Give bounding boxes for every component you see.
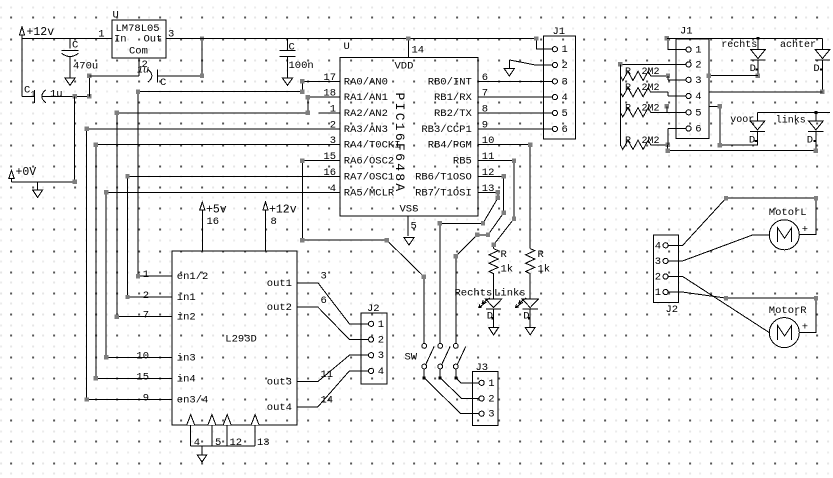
wire out1 to J2 pin1 xyxy=(297,283,369,324)
svg-text:470u: 470u xyxy=(73,60,98,72)
svg-text:13: 13 xyxy=(257,437,270,449)
svg-text:5: 5 xyxy=(695,107,701,119)
wire J1 pin2 to ground xyxy=(509,60,552,65)
label SW xyxy=(405,352,418,364)
supply +12v arrow (pin 8) xyxy=(263,202,297,228)
wire up to Out rail xyxy=(201,39,203,76)
ground L293D xyxy=(197,446,207,462)
svg-text:U: U xyxy=(113,10,119,22)
svg-text:C: C xyxy=(24,85,30,97)
connector J1 (right) xyxy=(676,26,709,139)
svg-text:D: D xyxy=(523,311,529,323)
svg-text:achter: achter xyxy=(780,39,816,51)
svg-text:Out: Out xyxy=(144,34,163,46)
ground below C 470u xyxy=(65,78,75,86)
wire RB6 to switch 3 xyxy=(454,174,506,343)
LED D Links xyxy=(515,298,538,323)
svg-text:3: 3 xyxy=(488,409,494,421)
svg-text:15: 15 xyxy=(323,151,336,163)
svg-text:out2: out2 xyxy=(267,302,292,314)
junction Out rail xyxy=(200,36,204,40)
wire +12v to pin 8 xyxy=(265,214,267,251)
svg-text:RB0/INT: RB0/INT xyxy=(428,76,472,88)
wire R to LED Links xyxy=(529,274,531,299)
svg-text:RB2/TX: RB2/TX xyxy=(434,108,473,120)
svg-text:16: 16 xyxy=(323,167,336,179)
svg-text:3: 3 xyxy=(562,76,568,88)
svg-text:6: 6 xyxy=(482,72,488,84)
svg-text:VDD: VDD xyxy=(395,60,414,72)
svg-text:+0V: +0V xyxy=(16,166,37,179)
LED D links xyxy=(807,112,824,146)
svg-text:Rechts: Rechts xyxy=(455,288,493,300)
switch SW1 xyxy=(422,344,434,380)
svg-text:L293D: L293D xyxy=(225,334,257,346)
svg-text:J3: J3 xyxy=(476,362,489,374)
wire links cathode to J1R pin6 xyxy=(666,132,819,153)
svg-text:14: 14 xyxy=(412,45,425,57)
svg-text:17: 17 xyxy=(323,72,336,84)
capacitor C 470u xyxy=(62,39,99,78)
wire LED Rechts to ground xyxy=(493,309,495,327)
svg-text:RA0/AN0: RA0/AN0 xyxy=(344,76,388,88)
svg-text:D: D xyxy=(487,311,493,323)
connector J1 (left) xyxy=(544,26,576,139)
wire voor jog xyxy=(665,104,669,112)
svg-text:out1: out1 xyxy=(267,278,292,290)
resistor R 1k (Rechts) xyxy=(489,249,513,276)
svg-text:in3: in3 xyxy=(177,352,196,364)
resistor R 2M2 #3 xyxy=(620,103,659,117)
pin RA2 stub xyxy=(318,112,340,114)
svg-text:1: 1 xyxy=(655,287,661,299)
wire +12v down to C1 xyxy=(21,39,23,97)
ground LED Rechts xyxy=(489,328,499,335)
svg-text:J2: J2 xyxy=(666,304,679,316)
svg-text:+: + xyxy=(802,322,808,334)
svg-text:RA7/OSC1: RA7/OSC1 xyxy=(344,171,394,183)
junction VDD rail xyxy=(406,36,410,40)
svg-text:J1: J1 xyxy=(553,26,566,38)
svg-text:MotorL: MotorL xyxy=(769,207,807,219)
svg-text:RB7/T1OSI: RB7/T1OSI xyxy=(415,187,472,199)
svg-text:2: 2 xyxy=(655,272,661,284)
capacitor C 1u (regulator output) xyxy=(137,66,166,90)
svg-text:3: 3 xyxy=(330,135,336,147)
wire RB2 to J1 pin5 xyxy=(478,112,552,114)
ground LED Links xyxy=(525,328,535,335)
svg-text:J1: J1 xyxy=(680,26,693,38)
svg-text:RB6/T1OSO: RB6/T1OSO xyxy=(415,171,472,183)
svg-text:RA1/AN1: RA1/AN1 xyxy=(344,92,388,104)
wire R2 to J1R pin4 xyxy=(651,92,686,96)
svg-text:in4: in4 xyxy=(177,373,196,385)
svg-text:3: 3 xyxy=(695,75,701,87)
svg-text:8: 8 xyxy=(482,104,488,116)
svg-text:C: C xyxy=(289,42,295,54)
wire J1R pin1 to LED rail xyxy=(665,36,686,50)
svg-text:6: 6 xyxy=(695,124,701,136)
wire RA3 to en3/4 xyxy=(84,127,339,402)
supply +5v arrow (pin 16) xyxy=(200,202,227,228)
svg-text:1: 1 xyxy=(488,378,494,390)
wire VDD rail xyxy=(166,38,536,40)
svg-text:J2: J2 xyxy=(367,303,380,315)
wire +0v rail xyxy=(12,181,75,183)
svg-text:R: R xyxy=(501,249,508,261)
microcontroller U PIC16F648A xyxy=(323,41,494,216)
svg-text:out3: out3 xyxy=(267,377,292,389)
svg-text:PIC16F648A: PIC16F648A xyxy=(392,93,407,194)
wire R4 to J1R pin6 xyxy=(651,129,686,148)
svg-text:4: 4 xyxy=(562,92,568,104)
wire achter cathode to J1R pin4 xyxy=(709,60,825,94)
svg-text:RA2/AN2: RA2/AN2 xyxy=(344,108,388,120)
svg-text:18: 18 xyxy=(323,88,336,100)
wire cap to Out net xyxy=(158,75,203,77)
ground J1 pin2 xyxy=(504,60,514,76)
svg-text:2: 2 xyxy=(488,393,494,405)
wire RA6 to switch 1 xyxy=(300,158,426,343)
wire RB3 to J1 pin6 xyxy=(478,128,552,130)
svg-text:rechts: rechts xyxy=(721,39,757,51)
wire regulator Com pin xyxy=(138,58,140,76)
svg-text:2: 2 xyxy=(143,290,149,302)
wire RB4 to resistor R (Links) xyxy=(478,143,533,249)
wire RB1 to J1 pin4 xyxy=(478,96,552,98)
svg-text:+5v: +5v xyxy=(206,203,227,216)
svg-text:2: 2 xyxy=(378,335,384,347)
svg-text:1: 1 xyxy=(31,91,36,100)
svg-text:1k: 1k xyxy=(501,264,514,276)
LED D rechts xyxy=(750,38,766,75)
svg-text:1: 1 xyxy=(378,319,384,331)
svg-text:RB4/PGM: RB4/PGM xyxy=(428,140,472,152)
svg-text:RB3/CCP1: RB3/CCP1 xyxy=(421,124,471,136)
motor MotorR xyxy=(769,305,808,348)
connector J2 (motor header symbol) xyxy=(361,303,387,384)
svg-text:7: 7 xyxy=(482,88,488,100)
svg-text:1: 1 xyxy=(695,45,701,57)
svg-text:3: 3 xyxy=(321,271,327,283)
svg-text:R: R xyxy=(625,83,631,94)
ground on +0v rail xyxy=(33,182,43,198)
svg-text:8: 8 xyxy=(271,216,277,228)
capacitor C 100n xyxy=(280,39,314,78)
svg-text:1: 1 xyxy=(562,44,568,56)
svg-text:RB1/RX: RB1/RX xyxy=(434,92,473,104)
svg-text:4: 4 xyxy=(330,183,336,195)
wire up to Com net xyxy=(88,76,90,97)
svg-text:Com: Com xyxy=(129,46,148,58)
wire switch1 to J3 pin3 xyxy=(424,378,479,414)
svg-text:+: + xyxy=(802,224,808,236)
svg-text:7: 7 xyxy=(143,310,149,322)
wire out2 to J2 pin2 xyxy=(297,307,369,339)
svg-text:R: R xyxy=(625,103,631,114)
connector J3 xyxy=(472,362,498,426)
svg-text:15: 15 xyxy=(136,371,149,383)
wire +12v rail to regulator In xyxy=(22,38,112,40)
svg-text:RA4/T0CKI: RA4/T0CKI xyxy=(344,140,401,152)
junction C1/+0v xyxy=(72,94,76,98)
svg-text:RA6/OSC2: RA6/OSC2 xyxy=(344,156,394,168)
switch SW3 xyxy=(453,344,465,380)
resistor R 2M2 #1 xyxy=(620,67,659,81)
svg-text:voor: voor xyxy=(730,115,754,126)
svg-text:5: 5 xyxy=(215,437,221,449)
svg-text:9: 9 xyxy=(143,393,149,405)
svg-text:2: 2 xyxy=(695,59,701,71)
wire J1R pin2 to resistor bus xyxy=(618,62,686,66)
resistor R 1k (Links) xyxy=(526,249,551,276)
svg-text:10: 10 xyxy=(136,350,149,362)
wire R3 to J1R pin5 xyxy=(651,111,686,113)
label Rechts xyxy=(455,288,493,300)
label achter xyxy=(780,39,816,51)
resistor bus xyxy=(619,64,621,144)
label Links xyxy=(494,288,526,300)
svg-text:C: C xyxy=(72,40,78,52)
svg-text:3: 3 xyxy=(378,350,384,362)
svg-text:12: 12 xyxy=(230,437,243,449)
svg-text:D: D xyxy=(750,63,756,75)
wire switch3 to J3 pin1 xyxy=(456,378,479,383)
svg-text:links: links xyxy=(776,114,806,126)
wire out3 to J2 pin3 xyxy=(297,355,369,381)
svg-text:R: R xyxy=(625,136,631,147)
svg-text:out4: out4 xyxy=(267,402,292,414)
wire VSS pin 5 xyxy=(408,216,417,236)
voltage regulator U LM78L05 xyxy=(98,10,174,72)
wire RB5 to resistor R (Rechts) xyxy=(478,158,516,248)
svg-text:3: 3 xyxy=(655,256,661,268)
wire R to LED Rechts xyxy=(493,274,495,299)
wire J2R pin4 to MotorL + xyxy=(668,196,818,245)
svg-text:in1: in1 xyxy=(177,292,196,304)
connector J2 (right, motors) xyxy=(654,235,679,316)
svg-text:1u: 1u xyxy=(50,89,63,101)
wire RA7 to in1 xyxy=(125,174,339,299)
svg-text:In: In xyxy=(114,34,127,46)
svg-text:1u: 1u xyxy=(137,66,149,77)
wire RA5 to in3 xyxy=(104,190,340,360)
svg-text:en3/4: en3/4 xyxy=(177,395,209,407)
svg-text:R: R xyxy=(625,67,631,78)
wire RB7 to switch 2 xyxy=(438,190,500,343)
svg-text:RB5: RB5 xyxy=(453,156,472,168)
junction +0v rail xyxy=(72,180,76,184)
svg-text:4: 4 xyxy=(695,91,701,103)
wire out4 to J2 pin4 xyxy=(297,371,369,407)
wire J2R pin2 to MotorR xyxy=(668,277,769,333)
junction cap top xyxy=(200,74,204,78)
svg-text:4: 4 xyxy=(378,366,384,378)
svg-text:2: 2 xyxy=(562,60,568,72)
svg-text:VSS: VSS xyxy=(400,203,419,215)
label voor xyxy=(730,115,754,126)
svg-text:+12v: +12v xyxy=(27,26,55,39)
LED D voor xyxy=(749,112,765,146)
svg-text:C: C xyxy=(160,77,166,89)
svg-text:en1/2: en1/2 xyxy=(177,271,209,283)
wire RA4 to in4 xyxy=(94,143,340,381)
wire voor cathode to J1R pin5 xyxy=(709,104,758,147)
svg-text:1: 1 xyxy=(330,104,336,116)
svg-text:RA3/AN3: RA3/AN3 xyxy=(344,124,388,136)
svg-text:6: 6 xyxy=(321,295,327,307)
supply +12V arrow xyxy=(19,26,54,39)
svg-text:D: D xyxy=(813,63,819,75)
LED D achter xyxy=(813,38,830,75)
label links xyxy=(776,114,806,126)
switch SW2 xyxy=(438,344,450,380)
svg-text:11: 11 xyxy=(482,151,495,163)
wire switch2 to J3 pin2 xyxy=(440,378,479,399)
wire VDD pin 14 xyxy=(408,39,424,58)
wire J2R pin1 to MotorR + xyxy=(668,292,818,333)
wire RB0 to J1 pin3 xyxy=(478,80,552,82)
svg-text:SW: SW xyxy=(405,352,418,364)
wire R1 to J1R pin3 xyxy=(651,74,686,80)
svg-text:D: D xyxy=(807,135,813,147)
wire rechts cathode to J1R pin3 xyxy=(707,60,760,78)
svg-text:2: 2 xyxy=(330,119,336,131)
svg-text:4: 4 xyxy=(194,437,200,449)
wire LED Links to ground xyxy=(529,309,531,327)
svg-text:12: 12 xyxy=(482,167,495,179)
wire RA1 to in2 xyxy=(115,95,340,319)
svg-text:R: R xyxy=(538,249,545,261)
svg-text:16: 16 xyxy=(207,216,220,228)
wires L293D ground pins 4 5 12 13 xyxy=(191,425,270,449)
motor MotorL xyxy=(769,207,808,250)
svg-text:10: 10 xyxy=(482,135,495,147)
ground below 100n xyxy=(282,78,292,86)
svg-text:13: 13 xyxy=(482,183,495,195)
svg-text:6: 6 xyxy=(562,124,568,136)
svg-text:RA5/MCLR: RA5/MCLR xyxy=(344,187,395,199)
svg-text:5: 5 xyxy=(562,108,568,120)
wire Com net xyxy=(89,75,139,77)
svg-text:1: 1 xyxy=(98,29,104,41)
wire J2R pin3 to MotorL xyxy=(668,235,769,261)
svg-text:in2: in2 xyxy=(177,312,196,324)
wire J1 pin1 to VDD rail xyxy=(534,36,552,49)
svg-text:U: U xyxy=(344,41,350,53)
supply +0V arrow xyxy=(9,166,36,182)
wire C1 to +0v node xyxy=(42,95,90,97)
motor driver IC L293D xyxy=(136,251,333,425)
junction node to Com xyxy=(87,94,91,98)
resistor R 2M2 #2 xyxy=(620,83,659,97)
svg-text:5: 5 xyxy=(411,221,417,233)
svg-text:4: 4 xyxy=(655,240,661,252)
svg-text:100n: 100n xyxy=(289,60,314,72)
wire +0v up to C1 node xyxy=(74,96,76,182)
label rechts xyxy=(721,39,757,51)
junction Com net corner xyxy=(87,74,91,78)
svg-text:9: 9 xyxy=(482,119,488,131)
wire +5v to pin 16 xyxy=(201,214,203,251)
svg-text:1: 1 xyxy=(143,269,149,281)
svg-text:Links: Links xyxy=(494,288,526,300)
ground VSS xyxy=(404,237,414,245)
wire RA0 to en1/2 xyxy=(136,79,340,278)
anode rail voor/links xyxy=(758,111,830,114)
svg-text:1k: 1k xyxy=(538,264,551,276)
LED D Rechts xyxy=(479,298,502,323)
anode rail rechts/achter xyxy=(667,37,823,40)
svg-text:+12v: +12v xyxy=(269,203,297,216)
resistor R 2M2 #4 xyxy=(620,136,659,150)
capacitor C1 1u xyxy=(22,85,63,103)
svg-text:MotorR: MotorR xyxy=(769,305,808,317)
